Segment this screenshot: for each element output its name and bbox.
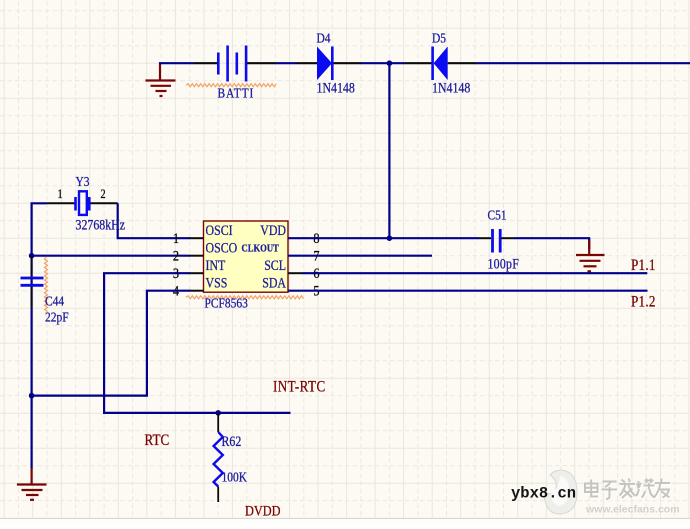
svg-text:OSCI: OSCI bbox=[206, 222, 233, 238]
svg-text:SDA: SDA bbox=[262, 274, 286, 290]
IC U1 PCF8563 body bbox=[204, 221, 289, 292]
svg-text:Y3: Y3 bbox=[76, 174, 90, 189]
svg-text:PCF8563: PCF8563 bbox=[205, 295, 248, 310]
wire D4 to D5 bbox=[334, 62, 362, 64]
wire pin8 VDD row bbox=[288, 237, 479, 239]
crystal Y3 bbox=[76, 191, 90, 215]
svg-text:RTC: RTC bbox=[145, 432, 170, 449]
svg-text:D5: D5 bbox=[432, 30, 446, 45]
svg-text:1: 1 bbox=[58, 188, 63, 201]
svg-text:www.elecfans.com: www.elecfans.com bbox=[585, 504, 680, 516]
svg-text:C51: C51 bbox=[488, 207, 507, 222]
svg-text:32768kHz: 32768kHz bbox=[76, 216, 126, 232]
svg-text:OSCO: OSCO bbox=[206, 239, 238, 255]
capacitor C44 bbox=[31, 257, 33, 277]
pin stubs left bbox=[190, 238, 204, 291]
svg-text:CLKOUT: CLKOUT bbox=[242, 243, 280, 255]
svg-text:DVDD: DVDD bbox=[245, 502, 281, 518]
wire OSCO row bbox=[32, 255, 190, 257]
wire pin5 row P1.2 bbox=[288, 290, 648, 292]
svg-text:1N4148: 1N4148 bbox=[317, 79, 356, 95]
junction node R62 bbox=[215, 410, 221, 416]
svg-text:VSS: VSS bbox=[206, 274, 228, 290]
wire battery to D4 bbox=[247, 62, 276, 64]
junction node bbox=[387, 60, 393, 66]
svg-text:INT: INT bbox=[206, 257, 226, 273]
svg-text:SCL: SCL bbox=[264, 257, 286, 273]
wire D5 to right edge bbox=[448, 62, 476, 64]
svg-text:D4: D4 bbox=[317, 30, 332, 45]
pin stub right pin6 bbox=[288, 272, 302, 274]
wire VSS net bbox=[32, 291, 190, 396]
wire crystal pin2 bbox=[91, 202, 118, 204]
bottom edge strip bbox=[0, 519, 690, 524]
svg-text:22pF: 22pF bbox=[45, 309, 69, 324]
ground GND bottom-left bbox=[17, 468, 47, 500]
diode D5 bbox=[431, 47, 447, 81]
battery BATT1 bbox=[218, 46, 246, 82]
svg-text:2: 2 bbox=[173, 248, 179, 264]
diode D4 bbox=[317, 47, 334, 81]
watermark logo blob bbox=[544, 470, 577, 514]
svg-text:P1.2: P1.2 bbox=[631, 293, 656, 310]
capacitor C51 bbox=[493, 229, 501, 253]
junction node OSCO bbox=[29, 253, 35, 259]
ground GND top bbox=[146, 63, 176, 96]
svg-text:ybx8.cn: ybx8.cn bbox=[511, 485, 576, 503]
svg-text:P1.1: P1.1 bbox=[631, 257, 656, 274]
wire ground to battery bbox=[159, 62, 194, 64]
svg-text:1: 1 bbox=[173, 230, 179, 246]
wire crystal pin1 + left vertical bbox=[32, 203, 47, 395]
orange marker BATT1 bbox=[186, 84, 276, 87]
svg-text:BATTI: BATTI bbox=[218, 85, 255, 100]
wire INT net bbox=[104, 273, 290, 413]
junction node pin8 bbox=[387, 235, 393, 241]
watermark chinese characters bbox=[586, 480, 671, 501]
wire pin7 row bbox=[288, 255, 432, 257]
wire to ground bottom-left bbox=[31, 396, 33, 469]
resistor R62 bbox=[217, 413, 219, 432]
svg-text:VDD: VDD bbox=[260, 222, 286, 238]
svg-text:C44: C44 bbox=[45, 293, 65, 308]
orange marker C44 bbox=[45, 257, 48, 312]
orange marker IC bbox=[186, 296, 304, 299]
junction node VSS net bbox=[29, 393, 35, 399]
svg-text:1N4148: 1N4148 bbox=[432, 79, 471, 95]
svg-text:2: 2 bbox=[101, 188, 106, 201]
svg-text:INT-RTC: INT-RTC bbox=[273, 378, 326, 395]
ground GND right bbox=[576, 240, 605, 271]
svg-text:100K: 100K bbox=[222, 469, 248, 484]
wire junction down bbox=[388, 63, 390, 238]
svg-text:100pF: 100pF bbox=[488, 255, 520, 271]
svg-text:R62: R62 bbox=[222, 433, 242, 449]
wire pin6 row P1.1 bbox=[302, 272, 647, 274]
